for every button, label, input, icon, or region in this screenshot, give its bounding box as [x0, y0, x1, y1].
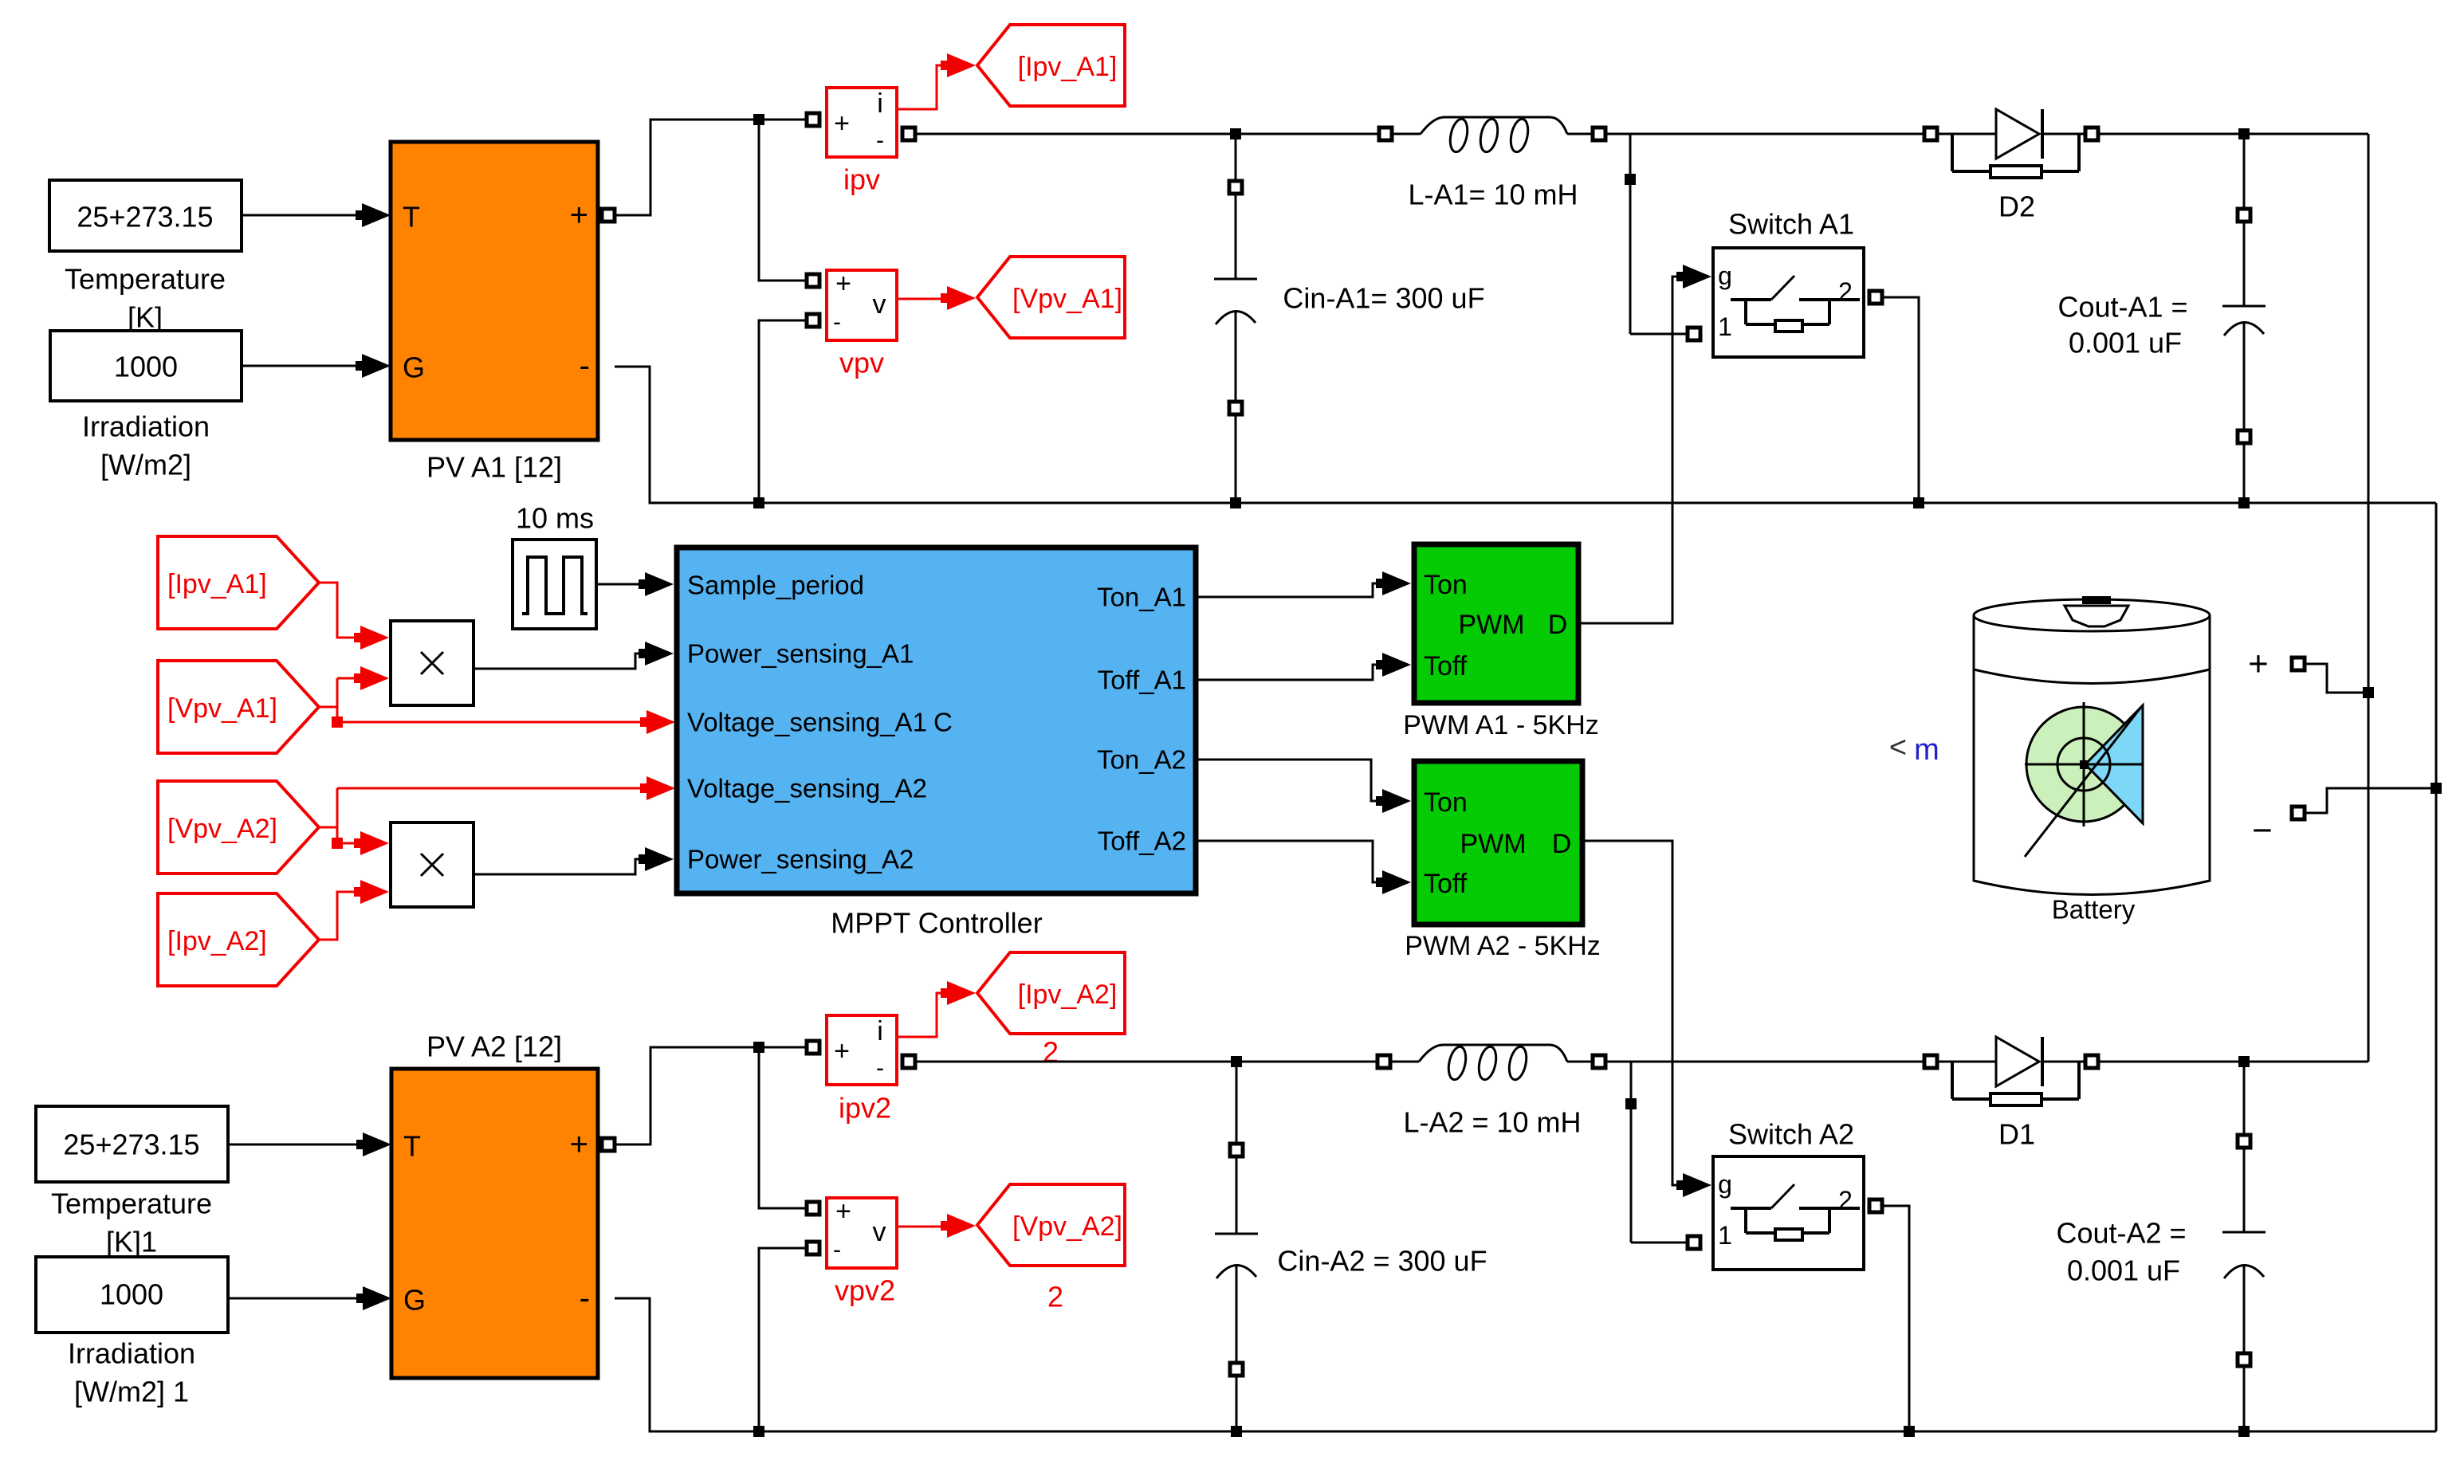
svg-text:L-A1= 10 mH: L-A1= 10 mH: [1408, 179, 1578, 211]
port Switch A1 output 2: [1869, 291, 1882, 304]
wire product2 to MPPT Power_sensing_A2: [474, 847, 674, 874]
wire Ipv_A1 to product1 in1: [319, 583, 389, 650]
svg-text:-: -: [580, 1281, 590, 1316]
svg-text:D2: D2: [1998, 190, 2035, 223]
svg-text:L-A2 = 10 mH: L-A2 = 10 mH: [1403, 1106, 1581, 1139]
svg-text:+: +: [2248, 645, 2269, 684]
svg-text:+: +: [570, 1127, 588, 1162]
svg-text:D1: D1: [1998, 1118, 2035, 1151]
node bend dot on Switch A2 wire: [1625, 1098, 1637, 1109]
port ipv2 - output: [902, 1055, 915, 1068]
wire Switch A1 output to bottom rail: [1882, 297, 1919, 497]
pulse generator 10 ms: [513, 502, 596, 630]
svg-text:[K]1: [K]1: [106, 1226, 157, 1258]
wire rail down to vpv2 +: [759, 1047, 807, 1208]
label Cout-A2 value: [2056, 1217, 2186, 1287]
wire Vpv_A1 to MPPT Voltage_sensing_A1: [337, 710, 675, 734]
svg-text:-: -: [833, 309, 841, 336]
svg-text:MPPT Controller: MPPT Controller: [831, 907, 1042, 940]
node junction Cout-A1 bottom: [2238, 497, 2250, 508]
capacitor Cout-A1: [2222, 134, 2266, 503]
port vpv2 - input: [807, 1242, 819, 1254]
svg-text:Temperature: Temperature: [65, 263, 226, 296]
port vpv - input: [807, 314, 819, 327]
wire Vpv_A1 split: [319, 666, 389, 722]
svg-text:T: T: [403, 201, 420, 234]
node junction Cin-A2 bottom: [1231, 1426, 1242, 1437]
node junction Cout-A1 top: [2238, 128, 2250, 139]
svg-text:Ton: Ton: [1424, 787, 1468, 818]
svg-text:G: G: [403, 1284, 426, 1317]
port vpv2 + input: [807, 1202, 819, 1215]
wire PV A2 + to ipv2 +: [615, 1047, 807, 1144]
node junction bottom-left rail A2: [753, 1426, 764, 1437]
svg-text:2: 2: [1043, 1036, 1059, 1069]
svg-text:[Ipv_A1]: [Ipv_A1]: [167, 569, 267, 599]
svg-text:+: +: [834, 108, 850, 139]
current sensor ipv: [827, 88, 897, 196]
port battery +: [2292, 658, 2305, 670]
svg-text:PWM: PWM: [1458, 610, 1524, 640]
port vpv + input: [807, 274, 819, 287]
svg-text:vpv2: vpv2: [835, 1274, 895, 1307]
wire bottom rail A2: [759, 1431, 2436, 1433]
label Cin-A1 value: [1283, 282, 1484, 315]
svg-text:PWM A2 - 5KHz: PWM A2 - 5KHz: [1405, 931, 1601, 961]
svg-text:<: <: [1889, 731, 1907, 764]
wire inductor to diode D2: [1605, 133, 1923, 135]
wire ipv2 i output to goto Ipv_A2: [897, 981, 976, 1037]
wire bottom rail A1: [759, 502, 2436, 504]
wire vpv2 v output to goto Vpv_A2: [897, 1214, 976, 1238]
svg-text:1000: 1000: [100, 1278, 163, 1311]
node junction Cout-A2 top: [2238, 1056, 2250, 1067]
svg-text:D: D: [1548, 610, 1568, 640]
wire Vpv_A2 split: [319, 788, 389, 855]
svg-text:1: 1: [1718, 1221, 1732, 1250]
wire vpv2 - to bottom rail: [759, 1248, 807, 1426]
svg-text:1000: 1000: [114, 351, 178, 383]
diode D1: [1924, 1037, 2098, 1151]
PWM generator block PWM A2 - 5KHz: [1405, 761, 1601, 961]
label L-A2 value: [1403, 1106, 1581, 1139]
wire to Switch A2 port 1: [1631, 1242, 1688, 1244]
svg-text:Sample_period: Sample_period: [687, 571, 864, 600]
svg-text:2: 2: [1047, 1281, 1063, 1313]
svg-text:+: +: [835, 1196, 851, 1227]
port ipv2 + input: [807, 1041, 819, 1054]
svg-text:Cin-A2 = 300 uF: Cin-A2 = 300 uF: [1277, 1245, 1487, 1278]
wire Switch A2 output to bottom rail: [1882, 1206, 1909, 1426]
node junction at top-left rail A1: [753, 114, 764, 125]
PV array block PV A2 [12]: [391, 1069, 598, 1378]
battery logo: [2025, 702, 2143, 857]
constant block Temperature [K] (25+273.15): [49, 180, 242, 334]
port ipv - output: [902, 128, 915, 140]
svg-text:Ton_A1: Ton_A1: [1097, 583, 1186, 612]
constant block Irradiation [W/m2] 1 (1000): [36, 1257, 228, 1408]
wire Ton_A2 to PWM A2: [1196, 760, 1411, 813]
node junction Switch A1 to rail: [1913, 497, 1924, 508]
svg-text:−: −: [2252, 811, 2273, 850]
svg-text:+: +: [834, 1036, 850, 1066]
wire D1 to right rail: [2098, 1061, 2368, 1063]
from tag [Vpv_A1]: [158, 661, 319, 753]
label L-A1 value: [1408, 179, 1578, 211]
svg-text:Irradiation: Irradiation: [82, 410, 210, 443]
node junction Vpv_A1: [332, 716, 343, 728]
wire inductor to diode D1: [1605, 1061, 1923, 1063]
label battery +: [2248, 645, 2269, 684]
svg-text:Voltage_sensing_A2: Voltage_sensing_A2: [687, 774, 927, 803]
from tag [Ipv_A2]: [158, 893, 319, 986]
goto tag [Ipv_A1]: [977, 25, 1125, 106]
svg-text:[Ipv_A2]: [Ipv_A2]: [1018, 980, 1118, 1010]
PWM generator block PWM A1 - 5KHz: [1403, 544, 1599, 740]
port ipv + input: [807, 113, 819, 126]
wire Temperature1 to PV A2 T: [228, 1133, 391, 1156]
svg-text:Toff_A2: Toff_A2: [1098, 826, 1186, 856]
port battery -: [2292, 807, 2305, 819]
port Switch A2 output 2: [1869, 1199, 1882, 1212]
constant block Irradiation [W/m2] (1000): [50, 331, 242, 481]
svg-text:i: i: [877, 1016, 883, 1046]
diode D2: [1924, 109, 2098, 223]
svg-text:0.001 uF: 0.001 uF: [2069, 327, 2182, 359]
svg-text:[Vpv_A2]: [Vpv_A2]: [167, 814, 277, 844]
svg-text:[Ipv_A1]: [Ipv_A1]: [1018, 52, 1118, 82]
svg-text:2: 2: [1838, 1186, 1853, 1215]
svg-text:Temperature: Temperature: [51, 1188, 212, 1220]
svg-text:Irradiation: Irradiation: [68, 1337, 195, 1370]
svg-text:[W/m2] 1: [W/m2] 1: [74, 1376, 189, 1408]
label Cin-A2 value: [1277, 1245, 1487, 1278]
svg-text:G: G: [403, 351, 425, 384]
wire Irradiation to PV A1 G: [242, 354, 391, 378]
voltage sensor vpv2: [827, 1196, 897, 1307]
svg-text:[Vpv_A1]: [Vpv_A1]: [167, 693, 277, 724]
svg-text:+: +: [835, 269, 851, 299]
svg-text:[Ipv_A2]: [Ipv_A2]: [167, 926, 267, 956]
from tag [Vpv_A2]: [158, 781, 319, 874]
node junction battery + rail: [2363, 687, 2374, 698]
svg-text:Toff_A1: Toff_A1: [1098, 665, 1186, 695]
switch block Switch A2: [1713, 1118, 1864, 1270]
wire PV A1 + to ipv +: [615, 120, 807, 215]
capacitor Cin-A1: [1214, 134, 1257, 503]
PV array block PV A1 [12]: [391, 142, 598, 484]
node bend dot on Switch A1 wire: [1625, 174, 1636, 185]
svg-text:-: -: [876, 1055, 884, 1082]
svg-text:C: C: [933, 708, 953, 737]
svg-text:[Vpv_A1]: [Vpv_A1]: [1012, 284, 1122, 314]
svg-text:Power_sensing_A2: Power_sensing_A2: [687, 845, 914, 874]
inductor L-A2: [1377, 1045, 1605, 1082]
label Cout-A1 value: [2057, 291, 2187, 359]
wire right vertical rail (D2 side): [2368, 134, 2370, 1062]
node junction Cin-A1 top: [1230, 128, 1241, 139]
wire ipv - output to inductor L-A1: [915, 133, 1379, 135]
label PV A2 [12]: [426, 1031, 562, 1063]
svg-text:PV A2 [12]: PV A2 [12]: [426, 1031, 562, 1063]
label battery -: [2252, 811, 2273, 850]
svg-text:PWM: PWM: [1460, 829, 1526, 859]
svg-text:Ton: Ton: [1424, 570, 1468, 600]
port PV A2 +: [602, 1138, 615, 1151]
wire down to Switch A2 input 1: [1630, 1062, 1633, 1243]
svg-text:2: 2: [1838, 277, 1853, 306]
svg-text:Cin-A1= 300 uF: Cin-A1= 300 uF: [1283, 282, 1484, 315]
svg-text:Switch A2: Switch A2: [1728, 1118, 1854, 1151]
svg-text:Cout-A2 =: Cout-A2 =: [2056, 1217, 2186, 1250]
node junction battery - rail: [2431, 783, 2442, 794]
wire down to Switch A1 input 1: [1629, 134, 1632, 334]
svg-text:[Vpv_A2]: [Vpv_A2]: [1012, 1211, 1122, 1242]
wire right-most vertical rail: [2435, 503, 2438, 1431]
svg-text:25+273.15: 25+273.15: [63, 1129, 199, 1161]
svg-text:Voltage_sensing_A1: Voltage_sensing_A1: [687, 708, 927, 737]
svg-text:Ton_A2: Ton_A2: [1097, 745, 1186, 775]
node junction Vpv_A2: [332, 838, 343, 849]
svg-text:D: D: [1552, 829, 1572, 859]
goto tag [Ipv_A2]: [977, 952, 1125, 1069]
wire Irradiation1 to PV A2 G: [228, 1286, 391, 1310]
capacitor Cin-A2: [1215, 1062, 1258, 1431]
svg-text:ipv2: ipv2: [839, 1092, 891, 1125]
wire battery + to rail: [2305, 664, 2363, 693]
svg-text:1: 1: [1718, 312, 1732, 341]
wire vpv - to bottom rail: [759, 320, 807, 497]
label Battery: [2052, 895, 2136, 925]
node junction Cin-A1 bottom: [1230, 497, 1241, 508]
wire pulse to MPPT Sample_period: [598, 572, 674, 596]
port Switch A1 input 1: [1688, 328, 1700, 340]
node junction Switch A2 to rail: [1904, 1426, 1915, 1437]
wire rail down to vpv + input: [759, 120, 807, 281]
svg-text:Switch A1: Switch A1: [1728, 208, 1854, 241]
svg-text:ipv: ipv: [843, 163, 880, 196]
goto tag [Vpv_A2]: [977, 1184, 1125, 1313]
svg-text:g: g: [1718, 261, 1732, 290]
wire PV A1 - to bottom rail: [615, 367, 753, 503]
node junction Cout-A2 bottom: [2238, 1426, 2250, 1437]
wire D2 to right corner: [2098, 133, 2368, 135]
svg-text:25+273.15: 25+273.15: [77, 201, 213, 234]
wire ipv2 - output to inductor L-A2: [915, 1061, 1377, 1063]
wire battery - to rail: [2305, 788, 2431, 813]
wire Temperature to PV A1 T: [242, 203, 391, 227]
svg-text:-: -: [833, 1237, 841, 1263]
svg-text:Toff: Toff: [1424, 651, 1468, 681]
MPPT Controller block: [677, 548, 1196, 940]
svg-text:Cout-A1 =: Cout-A1 =: [2057, 291, 2187, 324]
svg-text:T: T: [403, 1130, 421, 1163]
svg-text:Toff: Toff: [1424, 869, 1468, 899]
product block (P=V*I) A1: [391, 621, 474, 705]
svg-text:v: v: [873, 1217, 886, 1247]
svg-text:g: g: [1718, 1170, 1732, 1199]
svg-text:PWM A1 - 5KHz: PWM A1 - 5KHz: [1403, 710, 1599, 740]
svg-text:v: v: [873, 289, 886, 320]
wire vpv v output to goto Vpv_A1: [897, 286, 976, 310]
svg-text:-: -: [876, 128, 884, 154]
wire PWM A1 D to Switch A1 g: [1578, 265, 1711, 623]
wire PWM A2 D to Switch A2 g: [1582, 841, 1711, 1197]
wire Ton_A1 to PWM A1: [1196, 571, 1411, 597]
wire Toff_A2 to PWM A2: [1196, 841, 1411, 894]
label <m: [1889, 731, 1939, 767]
svg-text:[K]: [K]: [128, 301, 163, 334]
svg-text:m: m: [1914, 733, 1939, 767]
switch block Switch A1: [1713, 208, 1864, 358]
svg-text:Power_sensing_A1: Power_sensing_A1: [687, 639, 914, 669]
svg-text:Battery: Battery: [2052, 895, 2136, 925]
current sensor ipv2: [827, 1015, 897, 1125]
wire product1 to MPPT Power_sensing_A1: [474, 642, 674, 669]
node junction top-left rail A2: [753, 1042, 764, 1053]
svg-text:[W/m2]: [W/m2]: [100, 449, 191, 481]
svg-text:vpv: vpv: [839, 347, 884, 379]
svg-text:0.001 uF: 0.001 uF: [2067, 1254, 2180, 1287]
product block (P=V*I) A2: [391, 822, 474, 907]
voltage sensor vpv: [827, 269, 897, 379]
svg-text:+: +: [570, 198, 588, 233]
goto tag [Vpv_A1]: [977, 257, 1125, 338]
wire to Switch A1 port 1: [1630, 333, 1688, 336]
battery block cylinder: [1974, 596, 2210, 895]
from tag [Ipv_A1]: [158, 536, 319, 629]
wire Vpv_A2 to MPPT Voltage_sensing_A2: [337, 776, 675, 800]
constant block Temperature [K]1 (25+273.15): [36, 1106, 228, 1258]
capacitor Cout-A2: [2222, 1062, 2266, 1431]
wire Ipv_A2 to product2 in2: [319, 880, 389, 940]
svg-text:10 ms: 10 ms: [516, 502, 594, 535]
wire ipv i output to goto Ipv_A1: [897, 53, 976, 109]
wire Toff_A1 to PWM A1: [1196, 653, 1411, 680]
svg-text:PV A1 [12]: PV A1 [12]: [426, 451, 562, 484]
node junction Cin-A2 top: [1231, 1056, 1242, 1067]
node junction bottom-left rail A1: [753, 497, 764, 508]
svg-text:-: -: [580, 348, 590, 383]
wire PV A2 - to bottom rail: [615, 1298, 753, 1431]
svg-text:i: i: [877, 88, 883, 119]
port PV A1 +: [602, 209, 615, 222]
inductor L-A1: [1379, 117, 1605, 154]
port Switch A2 input 1: [1688, 1236, 1700, 1249]
